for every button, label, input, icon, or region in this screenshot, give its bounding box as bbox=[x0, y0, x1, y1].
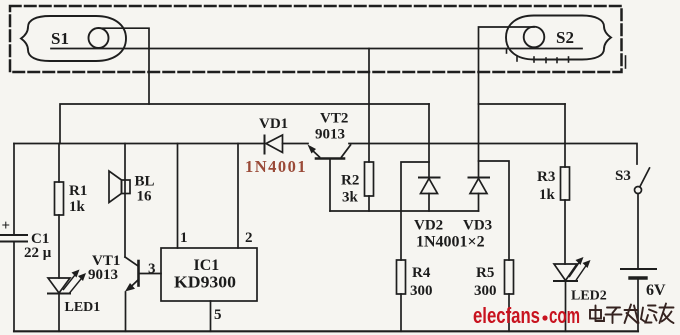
svg-text:R1: R1 bbox=[69, 183, 87, 199]
svg-text:3k: 3k bbox=[342, 190, 359, 206]
svg-text:1k: 1k bbox=[69, 199, 86, 215]
watermark chinese characters bbox=[590, 304, 674, 324]
svg-text:1N4001: 1N4001 bbox=[245, 157, 307, 176]
resistor R4 bbox=[397, 162, 430, 331]
transistor VT2 bbox=[308, 145, 351, 212]
switch S2 contact ball bbox=[524, 27, 545, 48]
svg-text:5: 5 bbox=[214, 307, 222, 323]
svg-text:S2: S2 bbox=[556, 28, 574, 47]
IC1 pin 2 wire bbox=[237, 144, 239, 249]
diode VD1 bbox=[265, 135, 309, 154]
wire S2 top lead bbox=[479, 27, 535, 178]
resistor R5 bbox=[479, 161, 514, 331]
wire right rail bbox=[349, 144, 637, 165]
svg-text:16: 16 bbox=[137, 189, 153, 205]
svg-text:+: + bbox=[2, 218, 11, 234]
switch S2 body bbox=[506, 16, 611, 60]
svg-text:R2: R2 bbox=[341, 173, 359, 189]
svg-text:300: 300 bbox=[410, 283, 433, 299]
diode VD2 bbox=[419, 104, 440, 211]
diode VD3 bbox=[469, 178, 490, 212]
wire trigger line S1-S2 bbox=[51, 48, 582, 50]
LED LED1 bbox=[48, 270, 86, 332]
wire upper rail right section bbox=[479, 103, 566, 105]
svg-text:300: 300 bbox=[474, 283, 497, 299]
speaker BL bbox=[109, 144, 130, 258]
svg-text:9013: 9013 bbox=[315, 127, 345, 143]
svg-text:R4: R4 bbox=[412, 265, 431, 281]
sensor enclosure dashed box bbox=[10, 6, 622, 72]
svg-text:IC1: IC1 bbox=[194, 257, 220, 274]
svg-text:VD1: VD1 bbox=[259, 116, 288, 132]
svg-text:22 μ: 22 μ bbox=[24, 245, 52, 261]
IC1 pin 5 wire bbox=[210, 301, 212, 331]
switch S1 body bbox=[21, 16, 126, 61]
battery GB 6V bbox=[621, 269, 656, 331]
svg-text:LED2: LED2 bbox=[571, 289, 607, 304]
svg-text:R3: R3 bbox=[537, 169, 555, 185]
switch S1 contact ball bbox=[89, 28, 109, 48]
svg-text:VT2: VT2 bbox=[320, 111, 348, 127]
watermark elecfans.com bbox=[473, 303, 580, 328]
svg-text:1k: 1k bbox=[539, 187, 556, 203]
svg-text:S1: S1 bbox=[51, 29, 69, 48]
svg-text:1N4001×2: 1N4001×2 bbox=[416, 234, 485, 251]
svg-text:BL: BL bbox=[135, 174, 155, 190]
resistor R3 bbox=[561, 104, 570, 264]
resistor R1 bbox=[55, 144, 64, 279]
svg-text:6V: 6V bbox=[646, 282, 666, 299]
IC1 pin 1 wire bbox=[177, 144, 179, 249]
svg-text:VD3: VD3 bbox=[463, 218, 492, 234]
transistor VT1 bbox=[125, 257, 161, 331]
svg-text:R5: R5 bbox=[476, 265, 494, 281]
svg-text:S3: S3 bbox=[615, 168, 631, 184]
wire upper rail left section bbox=[60, 104, 429, 144]
svg-text:2: 2 bbox=[245, 230, 253, 246]
wire S1 top lead bbox=[99, 28, 150, 104]
svg-text:VD2: VD2 bbox=[414, 218, 443, 234]
LED LED2 bbox=[554, 257, 591, 331]
wire VT2 base / diode anode line bbox=[330, 210, 479, 212]
wire main bus left bbox=[14, 143, 264, 145]
svg-text:elecfans: elecfans bbox=[473, 303, 540, 328]
svg-text:1: 1 bbox=[180, 230, 188, 246]
scan artifact ticks under S2 bbox=[507, 49, 626, 68]
capacitor C1 bbox=[1, 235, 27, 331]
svg-text:LED1: LED1 bbox=[65, 300, 101, 315]
svg-text:3: 3 bbox=[148, 261, 156, 277]
wire bottom bus bbox=[14, 330, 638, 332]
resistor R2 bbox=[365, 49, 374, 212]
svg-text:com: com bbox=[549, 303, 580, 328]
switch S3 bbox=[635, 168, 650, 269]
wire left rail top bbox=[13, 144, 15, 236]
svg-text:9013: 9013 bbox=[88, 267, 118, 283]
svg-text:KD9300: KD9300 bbox=[174, 273, 236, 292]
IC IC1 KD9300 body bbox=[161, 248, 257, 301]
